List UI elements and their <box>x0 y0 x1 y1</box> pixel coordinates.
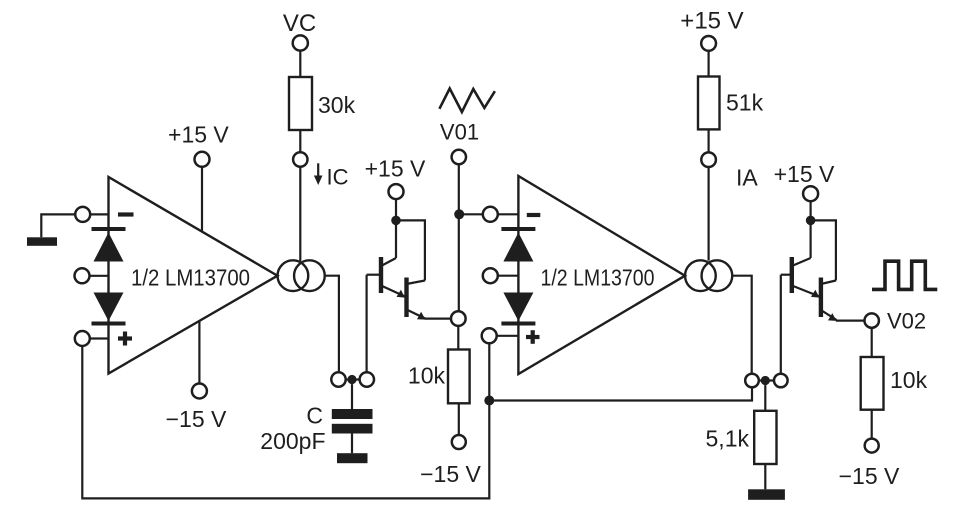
node noninverting input terminal U2 <box>482 328 497 343</box>
svg-text:V01: V01 <box>440 120 479 145</box>
transistor Q2 <box>404 278 408 318</box>
wire node to 5,1k <box>764 385 766 411</box>
node IA terminal <box>701 152 716 167</box>
wire 51k to terminal <box>707 129 709 152</box>
diode D3 U2 <box>503 233 533 262</box>
node +15V terminal (U1 top) <box>195 152 210 167</box>
node 5,1k left terminal <box>752 379 781 381</box>
junction feedback node U2 <box>484 396 494 406</box>
wire feedback to 5,1k node <box>489 387 752 400</box>
node C left terminal <box>346 378 360 380</box>
svg-text:+15 V: +15 V <box>365 156 426 182</box>
op-amp U2 1/2 LM13700 triangle <box>518 176 685 374</box>
wire 5,1k to ground <box>764 464 766 489</box>
node V01 emitter junction terminal <box>451 311 466 326</box>
resistor 10k (V01) <box>448 350 470 404</box>
wire ground to inverting input <box>41 214 75 237</box>
wire Q4 emitter to V02 <box>836 320 865 322</box>
wire U1 output down to C node <box>325 276 339 373</box>
resistor 51k <box>698 77 720 130</box>
svg-text:+15 V: +15 V <box>774 161 835 187</box>
svg-text:−15 V: −15 V <box>839 463 900 489</box>
triangle wave symbol <box>439 89 495 113</box>
wire U2 output down to 5,1k node <box>732 276 751 374</box>
node noninverting input terminal U1 <box>75 331 90 346</box>
node -15V terminal (U1 bottom) <box>192 384 207 399</box>
node -15V terminal (V01) <box>452 435 466 449</box>
ground (capacitor) <box>337 453 368 463</box>
wire +15V to collectors <box>809 201 811 220</box>
svg-text:−15 V: −15 V <box>420 461 481 487</box>
wire 10k to -15V <box>458 403 460 435</box>
wire terminal to U1 plus <box>90 337 109 339</box>
wire +15V to collectors <box>395 199 397 220</box>
svg-text:VC: VC <box>283 10 316 37</box>
svg-text:5,1k: 5,1k <box>706 426 750 452</box>
svg-text:1/2 LM13700: 1/2 LM13700 <box>131 264 250 290</box>
svg-text:V02: V02 <box>887 309 926 334</box>
svg-text:−15 V: −15 V <box>166 406 227 432</box>
svg-text:10k: 10k <box>890 367 928 393</box>
svg-text:+15 V: +15 V <box>680 8 743 35</box>
wire VC to R 30k <box>299 51 301 77</box>
transistor Q1 <box>379 257 383 293</box>
node V02 terminal <box>865 313 879 327</box>
svg-text:IC: IC <box>327 165 349 190</box>
diode D3 cathode bar U2 <box>501 227 535 231</box>
node C right terminal <box>360 372 374 386</box>
svg-text:200pF: 200pF <box>260 428 325 454</box>
wire +15V to U1 <box>201 167 203 232</box>
wire IC into OTA1 bias <box>299 167 301 261</box>
junction C node <box>347 375 356 384</box>
wire feedback bottom rail <box>82 343 489 498</box>
ground (inverting input) <box>27 237 57 246</box>
wire +15V to 51k <box>707 51 709 77</box>
wire collector branch Q2 <box>396 220 425 280</box>
node +15V terminal (51k) <box>701 36 716 51</box>
diode D1 U1 <box>94 233 124 262</box>
plus sign U1 <box>118 336 132 340</box>
wire 10k to -15V <box>871 410 873 439</box>
wire IA into U2 bias <box>707 167 709 261</box>
junction 5,1k node <box>761 376 770 385</box>
diode D2 U1 <box>94 293 124 322</box>
svg-text:C: C <box>306 403 323 429</box>
arrow IC <box>317 163 319 176</box>
diode D2 cathode bar U1 <box>92 322 126 326</box>
diode D4 cathode bar U2 <box>501 322 535 326</box>
wire to 10k <box>457 326 459 350</box>
diode D4 U2 <box>503 293 533 322</box>
svg-text:10k: 10k <box>408 363 446 389</box>
svg-text:30k: 30k <box>318 92 356 118</box>
wire capacitor to ground <box>351 434 353 454</box>
wire 30k to terminal <box>299 130 301 152</box>
node -15V terminal (V02) <box>865 439 879 453</box>
wire C node to capacitor <box>351 384 353 409</box>
svg-text:51k: 51k <box>726 90 764 116</box>
node IC terminal <box>293 152 307 166</box>
svg-text:1/2 LM13700: 1/2 LM13700 <box>541 264 655 290</box>
capacitor C 200pF <box>332 409 373 419</box>
minus sign U2 <box>527 213 541 217</box>
output current source symbol U2 <box>685 260 716 291</box>
node inverting input terminal U1 <box>75 207 90 222</box>
ground (5,1k) <box>748 489 785 500</box>
transistor Q3 <box>790 257 794 293</box>
resistor 5,1k <box>754 411 776 464</box>
node 5,1k right terminal <box>774 374 788 388</box>
wire terminal to U1 minus <box>90 213 108 215</box>
diode D1 cathode bar U1 <box>92 227 126 231</box>
node inverting input terminal U2 <box>483 207 498 222</box>
op-amp U1 1/2 LM13700 triangle <box>109 177 278 374</box>
plus sign U2 <box>526 335 540 339</box>
wire Q1 base to C node <box>367 274 381 276</box>
wire Q3 base to 5,1k node <box>781 274 792 276</box>
node +15V terminal (buffer Q3 Q4) <box>803 186 818 201</box>
svg-text:+15 V: +15 V <box>168 122 229 148</box>
wire collector branch Q4 <box>811 220 836 280</box>
wire diode midpoint <box>90 275 109 277</box>
resistor 30k <box>289 77 312 130</box>
node diode midpoint terminal U1 <box>75 268 90 283</box>
output current source symbol U1 <box>278 260 309 291</box>
svg-text:IA: IA <box>736 165 758 191</box>
wire V02 to 10k <box>871 328 873 357</box>
square wave symbol <box>872 261 937 289</box>
wire U1 to -15V <box>198 321 200 383</box>
node diode midpoint terminal U2 <box>483 268 498 283</box>
junction collector node Q3 <box>806 216 816 226</box>
transistor Q4 <box>819 278 823 318</box>
wire junction to U2 inverting terminal <box>459 213 483 215</box>
minus sign U1 <box>118 212 134 216</box>
node VC terminal <box>293 35 308 50</box>
resistor 10k (V02) <box>861 357 884 410</box>
junction collector node Q1 <box>391 216 401 226</box>
wire V01 column <box>458 164 460 311</box>
wire Q2 emitter to V01 node <box>425 318 451 320</box>
node +15V terminal (buffer Q1 Q2) <box>389 184 404 199</box>
node V01 terminal <box>452 150 466 164</box>
junction V01 to U2 minus <box>454 209 464 219</box>
